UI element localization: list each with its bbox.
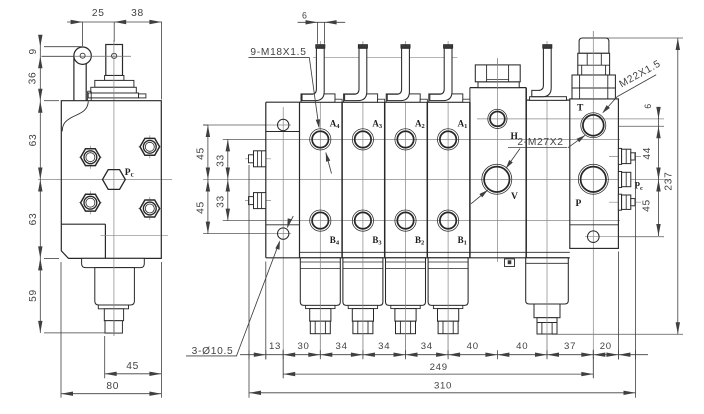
main body bottom edge: [266, 257, 570, 259]
left view bottom block: [95, 268, 135, 305]
dimension chain left view: [39, 41, 41, 334]
centerline inlet vertical: [496, 58, 498, 262]
svg-text:80: 80: [106, 381, 119, 392]
svg-text:38: 38: [131, 8, 144, 19]
plunger band 2: [91, 87, 137, 93]
port H: [488, 109, 507, 128]
relief valve hex upper: [578, 53, 610, 75]
centerline main horizontal: [203, 179, 668, 181]
locating pin block: [505, 259, 515, 267]
lever pivot pin: [80, 53, 85, 58]
svg-text:2-M27X2: 2-M27X2: [517, 137, 563, 148]
centerline end section vertical: [592, 31, 594, 378]
centerline section 2 vertical: [405, 41, 407, 357]
centerline section 5 vertical: [546, 41, 548, 357]
port T: [581, 113, 606, 138]
centerline overdraw stacks: [319, 259, 321, 358]
shoulder section 3: [378, 99, 385, 102]
leader M22X1.5 to T: [603, 97, 617, 113]
svg-text:9: 9: [28, 48, 39, 54]
right plate hole: [588, 231, 600, 243]
svg-text:45: 45: [196, 147, 207, 160]
centerline T-port row: [619, 125, 664, 127]
hex bolt left top: [79, 156, 102, 158]
centerline plate-hole top: [203, 124, 266, 126]
left view bottom band: [98, 305, 128, 309]
centerline section 1 vertical: [447, 41, 449, 357]
extension stack bottom right: [552, 333, 683, 335]
centerline B-port row: [223, 220, 266, 222]
left plate: [265, 102, 267, 258]
plunger base plate: [88, 93, 138, 98]
centerline left view port: [101, 234, 169, 236]
control rod section 1: [430, 48, 452, 100]
rod cap section 2: [401, 45, 410, 49]
svg-text:3-Ø10.5: 3-Ø10.5: [192, 346, 234, 357]
svg-text:6: 6: [302, 11, 308, 21]
port V: [482, 164, 512, 194]
port B4: [310, 210, 331, 231]
svg-text:40: 40: [516, 341, 528, 352]
shoulder section 4: [335, 99, 342, 102]
centerline left fitting 2: [245, 200, 271, 202]
dimension chain right side: [658, 111, 660, 237]
dimension 45 left view: [104, 336, 106, 378]
svg-text:P: P: [576, 199, 582, 209]
control rod section 4: [302, 48, 324, 100]
plate hole top: [278, 119, 289, 130]
leader 9-M18X1.5: [309, 57, 319, 127]
plunger rod: [106, 45, 123, 76]
svg-text:45: 45: [196, 201, 207, 214]
dimension 237: [677, 38, 679, 334]
rod cap section 1: [444, 45, 453, 49]
port P: [578, 164, 608, 194]
plunger base tab right: [139, 94, 146, 98]
shoulder section 1: [463, 99, 470, 102]
valve cap stack section 2: [386, 258, 426, 306]
centerline left view vertical: [113, 40, 115, 336]
svg-text:13: 13: [269, 341, 281, 352]
relief valve cap: [579, 38, 609, 53]
svg-text:36: 36: [27, 72, 38, 85]
svg-text:45: 45: [126, 361, 139, 372]
main body top edge: [266, 101, 470, 103]
main body bottom strip: [300, 251, 570, 253]
centerline left fitting 1: [245, 158, 271, 160]
rod boss section 4: [301, 94, 335, 102]
plunger collar: [105, 76, 124, 81]
port A1: [438, 129, 459, 150]
svg-text:310: 310: [434, 381, 452, 392]
left view bottom nut: [105, 321, 122, 333]
svg-text:237: 237: [664, 171, 675, 190]
centerline A-port row: [223, 138, 266, 140]
end plate: [570, 99, 619, 249]
inlet plug hex: [475, 65, 520, 82]
shoulder section 2: [420, 99, 427, 102]
svg-text:T: T: [577, 104, 584, 114]
centerline right-plate hole: [585, 236, 619, 238]
relief valve hex lower: [572, 75, 615, 99]
control rod section 2: [387, 48, 409, 100]
left view profile curve: [62, 102, 88, 132]
inlet plug neck: [478, 82, 519, 88]
rod boss section 1: [429, 94, 463, 102]
dimension 249: [283, 373, 593, 375]
dimension chain 45-33 left of main view: [207, 125, 209, 234]
rod boss section 5: [530, 97, 567, 101]
svg-text:9-M18X1.5: 9-M18X1.5: [250, 47, 306, 58]
centerline overdraw left view: [74, 55, 131, 57]
extension relief-valve top: [603, 37, 683, 39]
dimension chain bottom: [240, 354, 648, 356]
svg-text:249: 249: [430, 362, 448, 373]
svg-text:63: 63: [28, 213, 39, 226]
centerline overdraw left body: [113, 101, 115, 259]
plunger pin hole: [112, 53, 117, 58]
rod cap section 3: [358, 45, 367, 49]
left view bottom stem: [104, 309, 123, 321]
centerline H-port row: [477, 118, 664, 120]
centerline plate bolts vertical: [282, 107, 284, 378]
port B2: [395, 210, 416, 231]
lever arm: [74, 56, 86, 101]
port B3: [352, 210, 373, 231]
centerline plate-hole bottom: [203, 233, 266, 235]
dimension 25-38 lines: [67, 21, 162, 23]
inlet section edges: [469, 88, 471, 103]
svg-text:V: V: [511, 192, 518, 202]
centerline section 3 vertical: [362, 41, 364, 357]
svg-text:33: 33: [216, 195, 227, 208]
svg-text:45: 45: [642, 199, 653, 212]
valve cap stack section 3: [343, 258, 383, 306]
leader 2-M27X2 to V: [507, 149, 521, 168]
plug Pc hexagon: [103, 170, 126, 190]
svg-text:6: 6: [643, 103, 653, 109]
dimension 310: [249, 392, 636, 394]
svg-text:44: 44: [642, 147, 653, 160]
svg-text:25: 25: [92, 8, 105, 19]
rod cap section 4: [316, 45, 325, 49]
valve cap stack section 4: [300, 258, 340, 306]
port B1: [438, 210, 459, 231]
left view sub-block lines: [61, 223, 105, 225]
dimension 6 top: [298, 21, 346, 23]
svg-text:34: 34: [421, 341, 433, 352]
left test fitting y=158.8: [249, 155, 254, 163]
small step left: [87, 91, 89, 101]
section divider lines: [341, 102, 343, 258]
svg-text:34: 34: [336, 341, 348, 352]
left view bottom flange: [82, 258, 145, 267]
svg-text:59: 59: [28, 289, 39, 302]
centerline right fitting top: [609, 155, 641, 157]
centerline left view horizontal main: [38, 179, 172, 181]
plunger nut band: [95, 80, 134, 87]
section5 top edge: [526, 99, 570, 101]
valve cap stack section 5: [526, 258, 569, 304]
svg-text:30: 30: [297, 341, 309, 352]
leader 3-O10.5: [237, 242, 280, 356]
right fitting y=156.4: [618, 148, 621, 164]
right fitting y=202.2: [618, 194, 621, 210]
svg-text:34: 34: [378, 341, 390, 352]
lever pivot boss: [74, 47, 91, 64]
phantom line rod tops: [313, 56, 458, 58]
rod boss section 2: [386, 94, 420, 102]
svg-text:63: 63: [28, 134, 39, 147]
rod cap section 5: [543, 45, 552, 49]
port A3: [352, 129, 373, 150]
svg-text:33: 33: [216, 154, 227, 167]
plate hole bottom: [278, 228, 289, 239]
port A4: [310, 129, 331, 150]
left view body: [61, 101, 161, 259]
port A2: [395, 129, 416, 150]
centerline right fitting bottom: [609, 201, 641, 203]
centerline section 4 vertical: [319, 41, 321, 357]
control rod section 5: [532, 48, 551, 96]
svg-text:40: 40: [467, 341, 479, 352]
left test fitting y=200.6: [249, 197, 254, 205]
right fitting y=179.5: [618, 172, 621, 188]
svg-text:20: 20: [600, 341, 612, 352]
svg-text:37: 37: [564, 341, 576, 352]
valve cap stack section 1: [428, 258, 468, 306]
control rod section 3: [345, 48, 367, 100]
dimension 80 left view: [61, 393, 161, 395]
rod boss section 3: [344, 94, 378, 102]
